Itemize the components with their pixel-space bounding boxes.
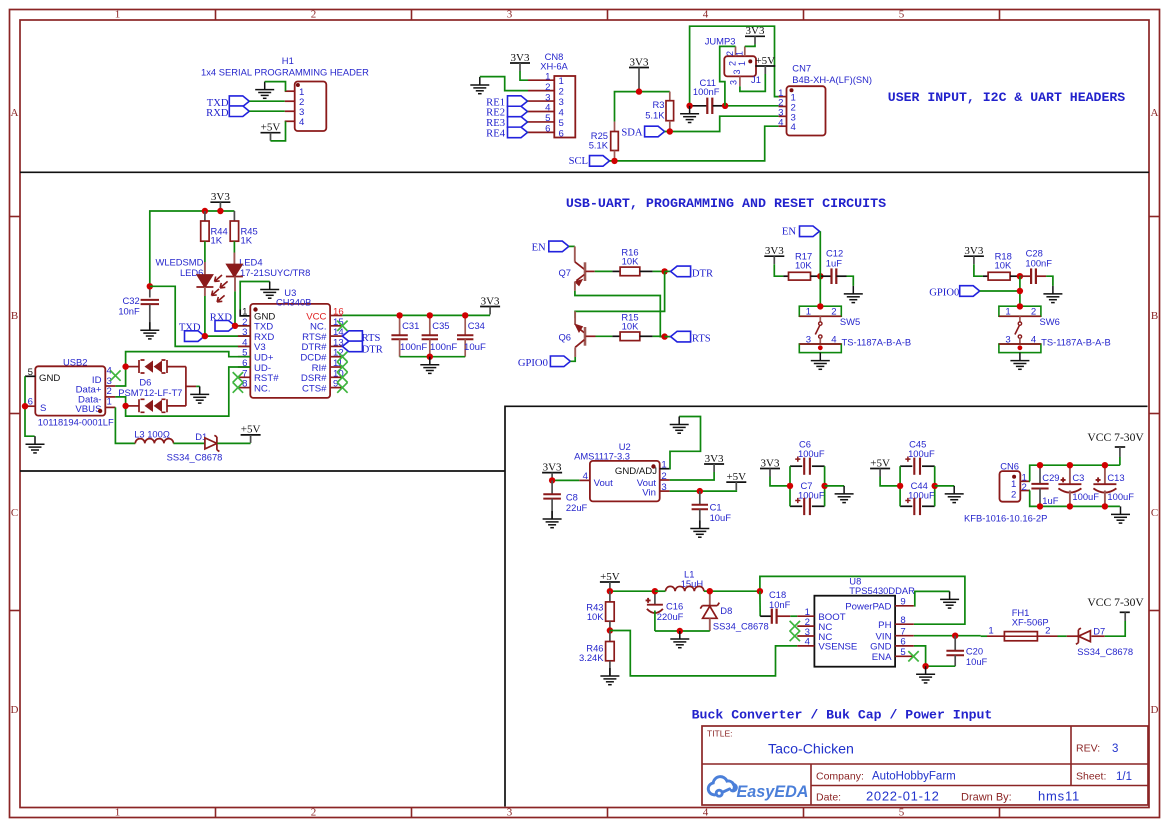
svg-text:2: 2 xyxy=(831,307,836,318)
junction xyxy=(549,477,555,483)
svg-text:WLEDSMD: WLEDSMD xyxy=(155,257,203,268)
svg-text:SW6: SW6 xyxy=(1040,316,1060,327)
wire xyxy=(610,126,779,161)
wire xyxy=(265,82,286,92)
svg-text:3V3: 3V3 xyxy=(746,25,765,37)
svg-text:6: 6 xyxy=(900,637,905,648)
svg-text:3: 3 xyxy=(507,806,513,818)
svg-text:4: 4 xyxy=(805,637,811,648)
wire xyxy=(1037,635,1057,637)
ground xyxy=(1043,286,1062,303)
svg-text:6: 6 xyxy=(545,124,550,135)
wire xyxy=(770,477,790,486)
svg-text:CTS#: CTS# xyxy=(302,383,327,394)
junction xyxy=(1067,503,1073,509)
resistor R25 xyxy=(611,122,619,161)
junction xyxy=(1067,462,1073,468)
svg-text:C3: C3 xyxy=(1072,472,1084,483)
svg-text:1K: 1K xyxy=(241,235,253,246)
svg-text:4: 4 xyxy=(559,108,565,119)
capacitor C3 xyxy=(1058,465,1081,506)
wire xyxy=(527,131,530,133)
svg-text:4: 4 xyxy=(778,117,784,128)
wire xyxy=(670,472,715,480)
wire xyxy=(980,290,1020,292)
svg-text:RE4: RE4 xyxy=(486,129,506,140)
net flag DTR xyxy=(671,266,714,279)
svg-text:100uF: 100uF xyxy=(1072,491,1099,502)
svg-text:RTS: RTS xyxy=(362,333,381,344)
svg-text:C1: C1 xyxy=(710,502,722,513)
wire 3V3 rail xyxy=(219,209,221,212)
wire VCC rail xyxy=(342,314,490,316)
wire xyxy=(789,466,791,506)
svg-text:VCC 7-30V: VCC 7-30V xyxy=(1087,431,1144,444)
svg-text:9: 9 xyxy=(900,597,905,608)
connector CN6 xyxy=(1000,471,1031,502)
svg-text:XH-6A: XH-6A xyxy=(540,61,568,72)
svg-text:C8: C8 xyxy=(566,492,578,503)
svg-text:5: 5 xyxy=(559,118,564,129)
capacitor C35 xyxy=(422,315,438,356)
svg-text:AutoHobbyFarm: AutoHobbyFarm xyxy=(872,771,956,783)
header H1 xyxy=(285,82,327,132)
svg-text:1uF: 1uF xyxy=(1042,495,1058,506)
IC U8 TPS5430DDAR xyxy=(797,596,914,667)
svg-text:2: 2 xyxy=(1031,307,1036,318)
ground xyxy=(140,322,159,339)
ground xyxy=(260,282,279,299)
net flag RE2 xyxy=(486,106,527,119)
wire U3 GND xyxy=(240,310,250,316)
wire xyxy=(935,485,955,487)
wire xyxy=(480,77,528,91)
junction xyxy=(652,588,658,594)
junction xyxy=(952,633,958,639)
wire xyxy=(527,121,530,123)
wire Data- to D6 xyxy=(115,397,125,406)
svg-text:4: 4 xyxy=(791,122,797,133)
svg-text:SCL: SCL xyxy=(569,156,588,167)
junction xyxy=(202,333,208,339)
junction xyxy=(427,354,433,360)
capacitor C31 xyxy=(391,315,407,356)
svg-text:B4B-XH-A(LF)(SN): B4B-XH-A(LF)(SN) xyxy=(792,74,872,85)
svg-text:RE3: RE3 xyxy=(486,118,505,129)
net flag TXD xyxy=(179,322,205,341)
wire xyxy=(527,100,530,102)
svg-text:2: 2 xyxy=(1045,626,1050,637)
ground xyxy=(811,353,830,370)
svg-text:TPS5430DDAR: TPS5430DDAR xyxy=(849,585,915,596)
svg-text:C13: C13 xyxy=(1107,472,1124,483)
ground xyxy=(1010,353,1029,370)
svg-text:Buck Converter / Buk Cap / Pow: Buck Converter / Buk Cap / Power Input xyxy=(692,707,993,722)
wire xyxy=(173,442,204,444)
svg-text:10uF: 10uF xyxy=(464,342,486,353)
svg-text:+5V: +5V xyxy=(241,424,261,436)
wire xyxy=(774,264,783,276)
capacitor C13 xyxy=(1093,465,1116,506)
wire LED4 to RXD xyxy=(234,277,236,292)
svg-text:5: 5 xyxy=(899,9,905,21)
svg-text:3: 3 xyxy=(507,9,513,21)
capacitor C11 xyxy=(690,98,726,114)
wire LED6 to TXD xyxy=(204,287,206,296)
svg-text:3V3: 3V3 xyxy=(765,245,784,257)
wire xyxy=(819,231,821,306)
wire C16 D8 ground rail xyxy=(655,630,710,632)
svg-text:B: B xyxy=(1151,310,1158,322)
svg-text:Vin: Vin xyxy=(642,488,656,499)
junction xyxy=(607,588,613,594)
wire xyxy=(899,466,901,506)
svg-text:C: C xyxy=(11,507,18,519)
wire xyxy=(847,276,854,286)
svg-text:1x4 SERIAL PROGRAMMING HEADER: 1x4 SERIAL PROGRAMMING HEADER xyxy=(201,67,369,78)
svg-text:100uF: 100uF xyxy=(798,490,825,501)
wire C18 branch xyxy=(759,591,761,616)
svg-text:22uF: 22uF xyxy=(566,502,588,513)
wire xyxy=(217,442,250,444)
svg-text:1/1: 1/1 xyxy=(1116,771,1132,783)
svg-text:Taco-Chicken: Taco-Chicken xyxy=(768,742,854,758)
resistor R43 xyxy=(606,591,615,630)
svg-text:B: B xyxy=(11,310,18,322)
svg-text:NC.: NC. xyxy=(254,383,271,394)
transistor Q7 xyxy=(569,246,595,290)
wire USB2 shield ground xyxy=(25,376,35,436)
net flag RTS xyxy=(671,331,711,344)
ground xyxy=(1111,506,1130,523)
svg-text:1: 1 xyxy=(988,626,993,637)
junction xyxy=(932,483,938,489)
capacitor C7 xyxy=(790,498,825,515)
svg-text:3: 3 xyxy=(732,69,742,74)
wire VBUS down xyxy=(115,407,135,443)
svg-text:RXD: RXD xyxy=(206,108,229,119)
ground xyxy=(844,286,863,303)
diode LED4 xyxy=(215,241,243,288)
capacitor C29 xyxy=(1031,465,1048,506)
svg-text:ENA: ENA xyxy=(872,652,892,663)
junction xyxy=(232,323,238,329)
regulator U2 AMS1117-3.3 xyxy=(579,460,669,502)
wire xyxy=(740,74,765,91)
wire xyxy=(745,44,755,46)
junction xyxy=(661,333,667,339)
svg-text:GPIO0: GPIO0 xyxy=(518,358,548,369)
svg-text:GPIO0: GPIO0 xyxy=(929,288,959,299)
wire xyxy=(249,110,284,112)
svg-text:1: 1 xyxy=(107,396,112,407)
ground xyxy=(680,106,699,123)
svg-text:5.1K: 5.1K xyxy=(645,110,665,121)
switch SW5 xyxy=(799,303,841,352)
ground xyxy=(835,486,854,503)
inductor L3 xyxy=(135,439,173,444)
capacitor C6 xyxy=(790,457,825,475)
svg-text:SS34_C8678: SS34_C8678 xyxy=(1077,646,1133,657)
junction xyxy=(1037,503,1043,509)
svg-text:D8: D8 xyxy=(720,605,732,616)
junction xyxy=(147,283,153,289)
junction xyxy=(462,312,468,318)
svg-text:+5V: +5V xyxy=(600,571,620,583)
net flag RE1 xyxy=(486,96,527,109)
net flag RXD xyxy=(210,313,235,332)
svg-text:2: 2 xyxy=(1022,482,1027,493)
svg-text:17-21SUYC/TR8: 17-21SUYC/TR8 xyxy=(240,267,310,278)
svg-text:VBUS: VBUS xyxy=(75,404,101,415)
svg-text:+5V: +5V xyxy=(726,471,746,483)
svg-text:PowerPAD: PowerPAD xyxy=(845,602,891,613)
svg-text:USER INPUT, I2C & UART HEADERS: USER INPUT, I2C & UART HEADERS xyxy=(888,90,1125,105)
wire xyxy=(725,105,779,107)
net flag RE3 xyxy=(486,117,527,129)
junction xyxy=(217,208,223,214)
transistor Q6 xyxy=(575,311,595,357)
svg-text:100uF: 100uF xyxy=(908,448,935,459)
section box buck converter xyxy=(505,406,1148,806)
svg-text:2: 2 xyxy=(728,61,738,66)
capacitor C34 xyxy=(457,315,473,356)
svg-text:3V3: 3V3 xyxy=(211,191,230,203)
junction xyxy=(707,588,713,594)
svg-text:+5V: +5V xyxy=(261,122,281,134)
svg-text:10K: 10K xyxy=(622,321,639,332)
svg-text:1: 1 xyxy=(559,76,564,87)
svg-text:1K: 1K xyxy=(211,235,223,246)
junction xyxy=(1037,462,1043,468)
svg-text:1: 1 xyxy=(115,9,121,21)
svg-text:100nF: 100nF xyxy=(1025,258,1052,269)
wire D6 right to ground xyxy=(185,367,187,406)
svg-text:PH: PH xyxy=(878,620,891,631)
svg-text:1: 1 xyxy=(735,51,745,56)
resistor R46 xyxy=(606,631,615,677)
capacitor C45 xyxy=(900,457,935,475)
svg-text:3V3: 3V3 xyxy=(705,453,724,465)
svg-text:3: 3 xyxy=(661,482,666,493)
svg-text:3V3: 3V3 xyxy=(630,56,649,68)
wire xyxy=(1091,635,1104,637)
svg-text:hms11: hms11 xyxy=(1038,789,1080,804)
ground xyxy=(945,486,964,503)
svg-text:2022-01-12: 2022-01-12 xyxy=(866,789,940,804)
svg-text:8: 8 xyxy=(242,379,247,390)
svg-text:VSENSE: VSENSE xyxy=(818,642,857,653)
junction xyxy=(607,627,613,633)
svg-text:5: 5 xyxy=(900,647,905,658)
svg-text:2: 2 xyxy=(559,87,564,98)
connector CN8 xyxy=(528,71,575,139)
junction xyxy=(922,663,928,669)
junction xyxy=(667,128,673,134)
svg-text:3V3: 3V3 xyxy=(761,457,780,469)
net flag SCL xyxy=(569,156,610,167)
wire xyxy=(235,325,250,327)
svg-text:1: 1 xyxy=(115,806,121,818)
svg-text:4: 4 xyxy=(703,9,709,21)
svg-text:6: 6 xyxy=(559,128,564,139)
wire Data+ to D6 xyxy=(115,367,125,386)
IC U3 CH340B xyxy=(238,304,344,398)
svg-text:2: 2 xyxy=(725,51,735,56)
svg-text:D: D xyxy=(11,704,19,716)
svg-text:10K: 10K xyxy=(587,611,604,622)
ground xyxy=(600,668,619,685)
wire xyxy=(670,490,737,491)
wire xyxy=(552,479,579,481)
svg-text:5: 5 xyxy=(899,806,905,818)
svg-text:3: 3 xyxy=(729,80,739,85)
ground xyxy=(420,357,439,374)
svg-text:A: A xyxy=(1151,107,1159,119)
svg-text:J1: J1 xyxy=(751,74,761,85)
wire xyxy=(271,121,286,141)
svg-text:1: 1 xyxy=(806,307,811,318)
capacitor C1 xyxy=(692,491,708,528)
svg-text:4: 4 xyxy=(831,335,837,346)
capacitor C12 xyxy=(820,268,846,284)
junction xyxy=(1017,273,1023,279)
svg-text:3: 3 xyxy=(545,92,550,103)
junction xyxy=(1017,288,1023,294)
svg-text:100uF: 100uF xyxy=(798,448,825,459)
svg-text:100nF: 100nF xyxy=(400,342,427,353)
svg-text:D6: D6 xyxy=(139,377,151,388)
wire U2 GND/ADJ to ground xyxy=(670,417,701,469)
svg-text:SW5: SW5 xyxy=(840,316,860,327)
svg-text:PSM712-LF-T7: PSM712-LF-T7 xyxy=(118,387,182,398)
diode D7 xyxy=(1076,628,1091,644)
wire VSENSE xyxy=(610,631,797,676)
junction xyxy=(611,158,617,164)
wire xyxy=(880,477,900,486)
net flag TXD xyxy=(207,96,250,109)
svg-text:VCC 7-30V: VCC 7-30V xyxy=(1087,596,1144,609)
wire Q7 emitter xyxy=(575,291,665,337)
svg-text:10K: 10K xyxy=(995,260,1012,271)
svg-text:CN6: CN6 xyxy=(1000,461,1019,472)
wire UD- rail xyxy=(126,367,251,416)
svg-text:CH340B: CH340B xyxy=(276,296,311,307)
wire PH loop xyxy=(760,576,965,624)
wire GND pin xyxy=(914,646,955,666)
svg-text:3V3: 3V3 xyxy=(964,245,983,257)
ground xyxy=(255,82,274,99)
wire xyxy=(690,26,779,106)
junction xyxy=(817,273,823,279)
wire xyxy=(665,336,671,338)
svg-text:+5V: +5V xyxy=(870,457,890,469)
svg-text:Date:: Date: xyxy=(816,792,841,804)
svg-text:4: 4 xyxy=(703,806,709,818)
wire VIN xyxy=(914,635,981,637)
svg-text:2: 2 xyxy=(661,471,666,482)
svg-text:Drawn By:: Drawn By: xyxy=(961,792,1012,804)
fuse FH1 xyxy=(1004,632,1037,641)
wire V3 xyxy=(150,286,251,346)
svg-text:Q6: Q6 xyxy=(559,332,572,343)
section divider line xyxy=(20,171,1149,173)
svg-text:10nF: 10nF xyxy=(118,306,140,317)
ground xyxy=(470,77,489,94)
ground xyxy=(916,666,935,683)
svg-text:220uF: 220uF xyxy=(657,611,684,622)
svg-text:1: 1 xyxy=(1011,479,1016,490)
svg-text:REV:: REV: xyxy=(1076,743,1100,755)
junction xyxy=(1102,462,1108,468)
svg-text:3V3: 3V3 xyxy=(511,52,530,64)
wire xyxy=(665,116,779,131)
junction xyxy=(757,588,763,594)
svg-text:100nF: 100nF xyxy=(693,86,720,97)
svg-text:EN: EN xyxy=(782,227,796,238)
junction xyxy=(686,103,692,109)
diode LED6 xyxy=(196,241,224,302)
resistor R45 xyxy=(230,211,238,241)
capacitor C18 xyxy=(760,609,797,624)
svg-text:5.1K: 5.1K xyxy=(589,140,609,151)
net flag EN xyxy=(782,226,820,238)
svg-text:A: A xyxy=(11,107,19,119)
svg-text:1: 1 xyxy=(1005,307,1010,318)
svg-text:SS34_C8678: SS34_C8678 xyxy=(713,621,769,632)
wire xyxy=(720,46,736,105)
diode pair D6 top xyxy=(126,360,186,373)
svg-text:3: 3 xyxy=(806,335,811,346)
ground xyxy=(543,511,562,528)
svg-text:XF-506P: XF-506P xyxy=(1012,616,1049,627)
svg-text:GND/ADJ: GND/ADJ xyxy=(615,466,657,477)
svg-text:JUMP3: JUMP3 xyxy=(705,36,736,47)
net flag RXD xyxy=(206,106,249,119)
no-connect marks U3 xyxy=(233,372,243,382)
svg-text:GND: GND xyxy=(39,373,60,384)
svg-text:C35: C35 xyxy=(432,320,449,331)
svg-text:C16: C16 xyxy=(666,601,683,612)
ground xyxy=(940,591,959,608)
svg-text:3.24K: 3.24K xyxy=(579,652,604,663)
svg-text:10uF: 10uF xyxy=(710,512,732,523)
wire xyxy=(527,111,530,113)
svg-text:1: 1 xyxy=(661,460,666,471)
svg-text:4: 4 xyxy=(299,117,305,128)
wire xyxy=(1119,457,1121,465)
svg-text:S: S xyxy=(40,403,46,414)
junction xyxy=(122,363,128,369)
wire xyxy=(665,270,671,272)
jumper J1 xyxy=(724,46,761,86)
svg-text:DTR: DTR xyxy=(362,345,384,356)
svg-text:RE2: RE2 xyxy=(486,108,505,119)
diode pair D6 bottom xyxy=(126,399,186,412)
ground xyxy=(670,417,689,434)
resistor R3 xyxy=(666,92,674,132)
svg-text:1: 1 xyxy=(545,71,550,82)
wire xyxy=(638,76,640,92)
svg-text:SS34_C8678: SS34_C8678 xyxy=(167,452,223,463)
svg-text:8: 8 xyxy=(900,615,905,626)
svg-text:C: C xyxy=(1151,507,1158,519)
wire xyxy=(1030,491,1120,507)
svg-text:4: 4 xyxy=(583,471,589,482)
no-connect marks U8 xyxy=(790,621,800,631)
svg-text:3V3: 3V3 xyxy=(481,295,500,307)
capacitor C16 xyxy=(646,591,663,631)
